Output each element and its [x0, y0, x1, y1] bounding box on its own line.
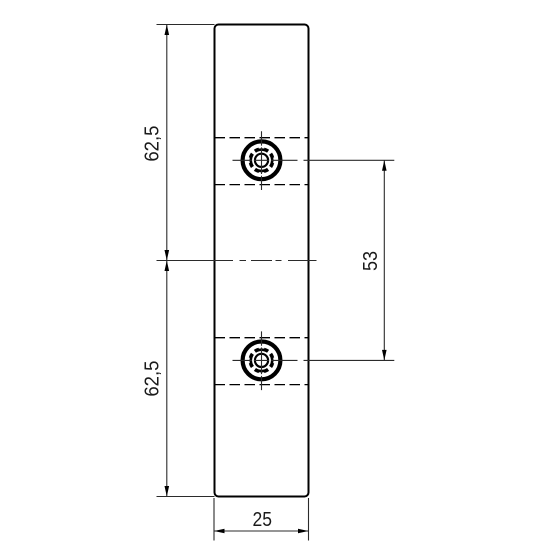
arrow down to centerline [165, 250, 170, 261]
extension line from F2 center [304, 359, 395, 361]
horizontal centerline mid plate [157, 260, 317, 262]
hidden edge line top of lower hole [215, 337, 309, 339]
plate outline [215, 25, 309, 497]
hidden edge line top of upper hole [215, 137, 309, 139]
dimension line 62,5 lower [166, 261, 168, 497]
arrow down at F2 line [382, 350, 387, 361]
arrow right at 25 [298, 529, 309, 534]
centerline vertical F2 [261, 331, 263, 390]
dimension line 53 [383, 160, 385, 360]
fastener F1 upper [243, 141, 281, 179]
svg-text:62,5: 62,5 [142, 126, 164, 162]
arrow up from centerline [165, 261, 170, 272]
extension line bottom left [157, 496, 215, 498]
extension line below left plate edge [213, 498, 215, 541]
hidden edge line bottom of upper hole [215, 184, 309, 186]
arrow down at plate bottom [165, 486, 170, 497]
centerline horizontal F2 [233, 359, 298, 361]
svg-text:25: 25 [253, 509, 273, 531]
extension line top left [157, 24, 215, 26]
hidden edge line bottom of lower hole [215, 384, 309, 386]
dimension line 62,5 upper [166, 25, 168, 261]
centerline vertical F1 [261, 131, 263, 190]
dimension line 25 [214, 530, 309, 532]
arrow up at F1 line [382, 160, 387, 171]
centerline horizontal F1 [233, 159, 298, 161]
extension line below right plate edge [308, 498, 310, 541]
fastener F2 lower [243, 342, 281, 380]
arrow left at 25 [214, 529, 225, 534]
svg-text:62,5: 62,5 [142, 361, 164, 397]
svg-text:53: 53 [360, 251, 382, 271]
arrow up at plate top [165, 25, 170, 36]
extension line from F1 center [304, 159, 395, 161]
